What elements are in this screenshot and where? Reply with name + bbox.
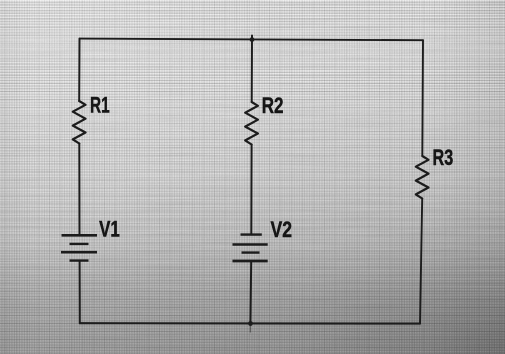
resistor R1	[73, 101, 86, 144]
resistor R3	[416, 156, 429, 199]
wire: bottom rail	[80, 322, 420, 324]
wire: stub below bottom node	[249, 324, 251, 332]
node A: top junction dot	[250, 37, 255, 42]
wire: middle rail between R2 and V2	[250, 145, 252, 235]
wire: left rail lower (V1 to bottom-left corner)	[79, 261, 81, 324]
wire: left rail upper (top-left corner to R1)	[78, 39, 80, 101]
wire: top rail	[80, 39, 424, 41]
svg-text:V1: V1	[99, 216, 120, 241]
battery V2	[233, 235, 268, 261]
svg-text:V2: V2	[271, 217, 293, 242]
battery V1	[61, 235, 97, 260]
wire: right rail lower (R3 to bottom-right corner)	[420, 199, 422, 324]
svg-text:R3: R3	[433, 145, 454, 170]
resistor R2	[245, 102, 258, 145]
svg-text:R1: R1	[90, 93, 110, 118]
svg-text:R2: R2	[262, 93, 284, 118]
wire: middle rail lower (V2 to bottom node)	[249, 261, 252, 324]
wire: right rail upper (top-right corner to R3)	[421, 40, 424, 156]
wire: left rail between R1 and V1	[78, 144, 80, 236]
node B: bottom junction dot	[248, 321, 253, 326]
wire: middle rail upper (top node to R2)	[251, 36, 253, 103]
